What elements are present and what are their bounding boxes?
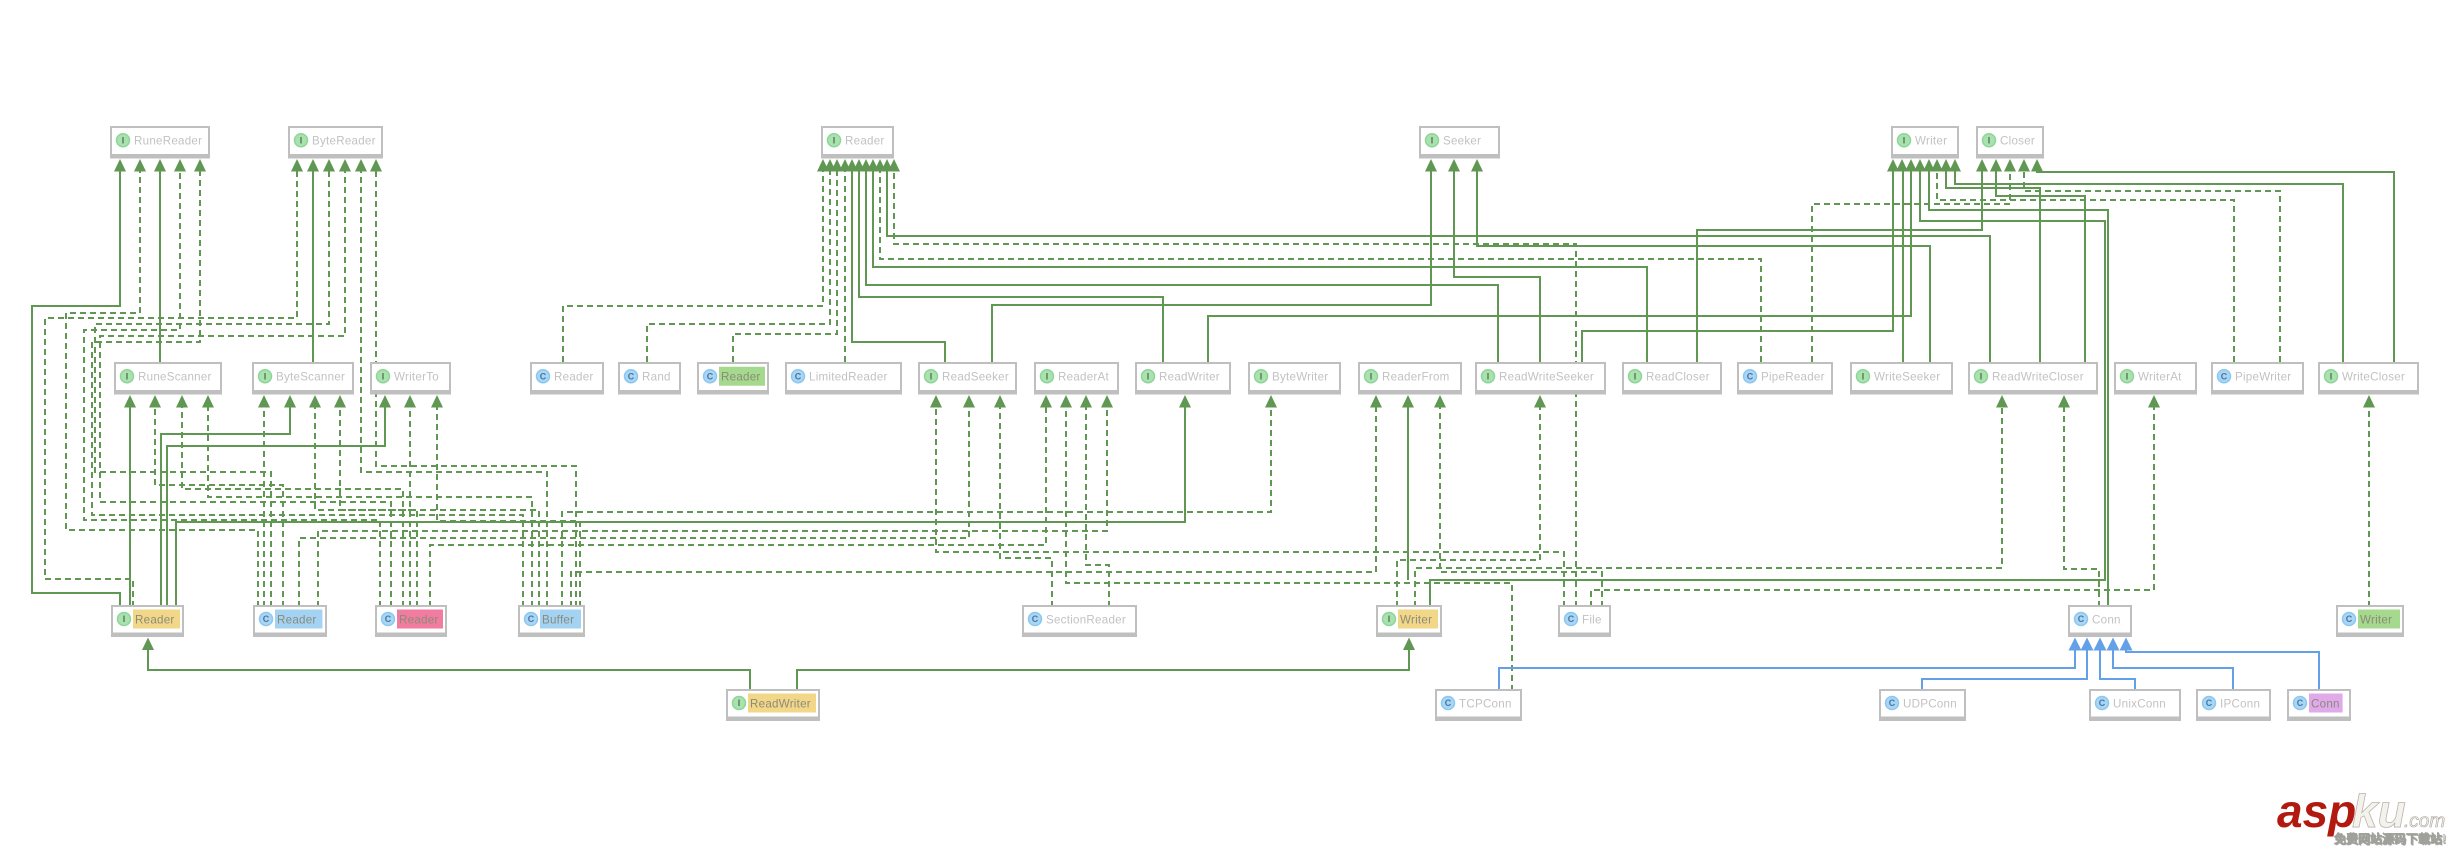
- arrowhead (blue): [2069, 638, 2082, 651]
- svg-text:C: C: [540, 371, 547, 381]
- arrowhead: [404, 395, 416, 408]
- svg-text:Rand: Rand: [642, 371, 671, 384]
- wire: [208, 408, 532, 608]
- svg-text:Reader: Reader: [277, 613, 317, 626]
- wire: [376, 172, 576, 608]
- arrowhead: [1425, 159, 1437, 172]
- arrowhead: [2031, 159, 2043, 172]
- wire: [409, 408, 411, 608]
- arrowhead: [824, 159, 836, 172]
- arrowhead: [2363, 395, 2375, 408]
- svg-text:I: I: [1988, 135, 1991, 145]
- wire: [1812, 172, 2010, 363]
- svg-text:I: I: [2330, 371, 2333, 381]
- class box ReadWriter: [1135, 362, 1231, 395]
- svg-text:Reader: Reader: [721, 371, 761, 384]
- svg-text:C: C: [1032, 614, 1039, 624]
- svg-text:C: C: [528, 614, 535, 624]
- arrowhead: [339, 159, 351, 172]
- watermark logo aspku.com: [2277, 785, 2446, 847]
- svg-text:Reader: Reader: [554, 371, 594, 384]
- svg-text:PipeReader: PipeReader: [1761, 371, 1825, 384]
- svg-text:I: I: [1431, 135, 1434, 145]
- wire: [84, 172, 380, 608]
- svg-text:UDPConn: UDPConn: [1903, 697, 1957, 710]
- class box Writer: [1891, 126, 1959, 159]
- class box ByteWriter: [1248, 362, 1341, 395]
- wire: [1066, 408, 1512, 692]
- svg-text:WriteSeeker: WriteSeeker: [1874, 371, 1940, 384]
- class box File: [1558, 605, 1611, 637]
- arrowhead: [1534, 395, 1546, 408]
- wire: [161, 408, 290, 608]
- class box IPConn: [2196, 689, 2271, 721]
- class box ReadWriteSeeker: [1475, 362, 1606, 395]
- arrowhead: [1905, 159, 1917, 172]
- wire: [263, 408, 265, 608]
- wire: [1697, 172, 1982, 363]
- arrowhead: [846, 159, 858, 172]
- arrowhead: [149, 395, 161, 408]
- svg-text:SectionReader: SectionReader: [1046, 613, 1126, 626]
- svg-text:C: C: [628, 371, 635, 381]
- arrowhead: [874, 159, 886, 172]
- class box Reader: [253, 605, 327, 637]
- arrowhead: [1949, 159, 1961, 172]
- class box Reader: [697, 362, 769, 395]
- wire: [894, 172, 1576, 608]
- wire (blue): [1922, 650, 2087, 689]
- class box ByteReader: [288, 126, 383, 159]
- wire: [563, 172, 823, 363]
- svg-text:免费网站源码下载站!: 免费网站源码下载站!: [2334, 831, 2446, 846]
- wire: [340, 408, 539, 608]
- svg-text:I: I: [738, 698, 741, 708]
- arrowhead: [1471, 159, 1483, 172]
- wire: [1902, 172, 1904, 363]
- svg-text:IPConn: IPConn: [2220, 697, 2260, 710]
- arrowhead: [963, 395, 975, 408]
- class box Seeker: [1419, 126, 1500, 159]
- wire: [155, 408, 283, 608]
- svg-text:asp: asp: [2277, 785, 2356, 837]
- arrowhead: [291, 159, 303, 172]
- wire: [1440, 408, 1602, 608]
- svg-text:ku: ku: [2352, 785, 2406, 837]
- arrowhead: [1923, 159, 1935, 172]
- svg-text:Writer: Writer: [1400, 613, 1432, 626]
- arrowhead (blue): [2081, 638, 2094, 651]
- svg-text:Reader: Reader: [845, 135, 885, 148]
- arrowhead: [258, 395, 270, 408]
- class box ReadWriter: [726, 689, 820, 721]
- arrowhead: [1448, 159, 1460, 172]
- wire: [844, 172, 846, 363]
- arrowhead: [1403, 638, 1415, 651]
- arrowhead: [1990, 159, 2002, 172]
- wire: [95, 172, 329, 608]
- wire: [299, 408, 969, 608]
- arrowhead: [994, 395, 1006, 408]
- arrowhead: [334, 395, 346, 408]
- arrowhead: [134, 159, 146, 172]
- arrowhead: [2148, 395, 2160, 408]
- class box TCPConn: [1435, 689, 1522, 721]
- svg-text:C: C: [2099, 698, 2106, 708]
- svg-text:C: C: [1747, 371, 1754, 381]
- wire: [2368, 408, 2370, 608]
- wire: [159, 172, 161, 363]
- arrowhead: [1265, 395, 1277, 408]
- svg-text:TCPConn: TCPConn: [1459, 697, 1512, 710]
- svg-text:WriteCloser: WriteCloser: [2342, 371, 2405, 384]
- wire: [2024, 172, 2280, 363]
- arrowhead: [431, 395, 443, 408]
- svg-text:Writer: Writer: [1915, 135, 1947, 148]
- arrowhead: [1976, 159, 1988, 172]
- class box Reader: [375, 605, 447, 637]
- arrowhead: [174, 159, 186, 172]
- arrowhead: [1060, 395, 1072, 408]
- arrowhead: [930, 395, 942, 408]
- wire: [1086, 408, 1109, 608]
- arrowhead: [860, 159, 872, 172]
- svg-text:I: I: [1370, 371, 1373, 381]
- svg-text:C: C: [707, 371, 714, 381]
- arrowhead: [355, 159, 367, 172]
- arrowhead: [1101, 395, 1113, 408]
- class box SectionReader: [1022, 605, 1137, 637]
- svg-text:.com: .com: [2404, 811, 2445, 832]
- svg-text:File: File: [1582, 613, 1602, 626]
- wire: [992, 172, 1431, 363]
- svg-text:RuneReader: RuneReader: [134, 135, 202, 148]
- wire: [859, 172, 1163, 363]
- svg-text:I: I: [2126, 371, 2129, 381]
- svg-text:C: C: [2206, 698, 2213, 708]
- wire (blue): [2113, 650, 2233, 689]
- arrowhead: [142, 638, 154, 651]
- arrowhead (blue): [2107, 638, 2120, 651]
- wire: [733, 172, 837, 363]
- class box PipeReader: [1737, 362, 1833, 395]
- svg-text:I: I: [1260, 371, 1263, 381]
- class box WriterTo: [370, 362, 451, 395]
- wire: [571, 408, 1376, 608]
- arrowhead (blue): [2094, 638, 2107, 651]
- svg-text:Conn: Conn: [2311, 697, 2340, 710]
- wire: [1582, 172, 1893, 363]
- svg-text:ReadCloser: ReadCloser: [1646, 371, 1710, 384]
- svg-text:ReaderFrom: ReaderFrom: [1382, 371, 1450, 384]
- class box LimitedReader: [785, 362, 902, 395]
- class box Conn: [2287, 689, 2351, 721]
- wire: [1454, 172, 1540, 363]
- svg-text:I: I: [1147, 371, 1150, 381]
- svg-text:RuneScanner: RuneScanner: [138, 371, 212, 384]
- wire: [167, 408, 385, 608]
- arrowhead: [881, 159, 893, 172]
- wire: [1397, 408, 1540, 608]
- svg-text:Closer: Closer: [2000, 135, 2035, 148]
- wire: [45, 172, 297, 608]
- class box Reader: [530, 362, 604, 395]
- svg-text:I: I: [1980, 371, 1983, 381]
- wire: [1415, 408, 2002, 608]
- arrowhead: [309, 395, 321, 408]
- arrowhead: [888, 159, 900, 172]
- class box ReaderAt: [1034, 362, 1119, 395]
- arrowhead: [1370, 395, 1382, 408]
- svg-text:LimitedReader: LimitedReader: [809, 371, 888, 384]
- wire (blue): [2100, 650, 2135, 689]
- arrowhead: [1896, 159, 1908, 172]
- arrowhead: [284, 395, 296, 408]
- wire: [32, 172, 120, 608]
- wire: [1946, 172, 2040, 363]
- svg-text:ByteReader: ByteReader: [312, 135, 376, 148]
- wire: [647, 172, 830, 363]
- svg-text:I: I: [264, 371, 267, 381]
- class box WriteSeeker: [1850, 362, 1953, 395]
- wire: [1430, 172, 2105, 608]
- arrowhead: [370, 159, 382, 172]
- wire: [936, 408, 1564, 608]
- wire: [1477, 172, 1930, 363]
- arrowhead: [194, 159, 206, 172]
- wire: [880, 172, 1761, 363]
- svg-text:ByteWriter: ByteWriter: [1272, 371, 1328, 384]
- arrowhead: [379, 395, 391, 408]
- arrowhead: [323, 159, 335, 172]
- svg-text:Buffer: Buffer: [542, 613, 574, 626]
- arrowhead: [1402, 395, 1414, 408]
- arrowhead: [114, 159, 126, 172]
- wire: [2037, 172, 2394, 363]
- svg-text:Reader: Reader: [135, 613, 175, 626]
- class box WriterAt: [2114, 362, 2197, 395]
- class box ReadSeeker: [918, 362, 1017, 395]
- svg-text:Seeker: Seeker: [1443, 135, 1481, 148]
- arrowhead: [831, 159, 843, 172]
- arrowhead: [2058, 395, 2070, 408]
- svg-text:C: C: [1445, 698, 1452, 708]
- svg-text:Reader: Reader: [399, 613, 439, 626]
- class box Conn: [2068, 605, 2132, 637]
- wire: [852, 172, 945, 363]
- arrowhead: [1179, 395, 1191, 408]
- class box Reader: [821, 126, 894, 159]
- arrowhead: [124, 395, 136, 408]
- wire: [1955, 172, 2343, 363]
- svg-text:I: I: [1487, 371, 1490, 381]
- class box Writer: [2336, 605, 2404, 637]
- wire (blue): [2126, 650, 2319, 689]
- svg-text:I: I: [382, 371, 385, 381]
- wire: [312, 172, 314, 363]
- wire: [182, 408, 403, 608]
- wire: [66, 172, 258, 608]
- wire: [1929, 172, 2108, 608]
- svg-text:I: I: [833, 135, 836, 145]
- svg-text:ReaderAt: ReaderAt: [1058, 371, 1110, 384]
- class box WriteCloser: [2318, 362, 2419, 395]
- wire: [1208, 172, 1911, 363]
- svg-text:C: C: [795, 371, 802, 381]
- svg-text:I: I: [122, 135, 125, 145]
- wire: [100, 172, 391, 608]
- wire: [1591, 408, 2154, 608]
- svg-text:I: I: [123, 614, 126, 624]
- arrowhead: [1080, 395, 1092, 408]
- wire: [318, 408, 1107, 608]
- svg-text:C: C: [2346, 614, 2353, 624]
- wire: [797, 650, 1409, 691]
- class box UnixConn: [2089, 689, 2181, 721]
- svg-text:ReadWriteCloser: ReadWriteCloser: [1992, 371, 2084, 384]
- arrowhead: [867, 159, 879, 172]
- svg-text:ReadWriteSeeker: ReadWriteSeeker: [1499, 371, 1594, 384]
- wire: [887, 172, 1990, 363]
- svg-text:ByteScanner: ByteScanner: [276, 371, 345, 384]
- class box Rand: [618, 362, 681, 395]
- class box Reader: [111, 605, 184, 637]
- class box UDPConn: [1879, 689, 1966, 721]
- class box PipeWriter: [2211, 362, 2304, 395]
- svg-text:C: C: [263, 614, 270, 624]
- arrowhead: [839, 159, 851, 172]
- wire: [361, 172, 547, 608]
- wire: [315, 408, 417, 608]
- wire (blue): [1499, 650, 2075, 689]
- arrowhead: [1887, 159, 1899, 172]
- svg-text:I: I: [1388, 614, 1391, 624]
- class box ReadCloser: [1622, 362, 1722, 395]
- wire: [176, 408, 1185, 608]
- arrowhead: [1040, 395, 1052, 408]
- svg-text:WriterAt: WriterAt: [2138, 371, 2182, 384]
- arrowhead: [853, 159, 865, 172]
- svg-text:WriterTo: WriterTo: [394, 371, 439, 384]
- svg-text:C: C: [385, 614, 392, 624]
- class box Closer: [1976, 126, 2044, 159]
- wire: [430, 408, 1046, 608]
- svg-text:PipeWriter: PipeWriter: [2235, 371, 2291, 384]
- svg-text:I: I: [1903, 135, 1906, 145]
- arrowhead: [1914, 159, 1926, 172]
- svg-text:I: I: [1862, 371, 1865, 381]
- svg-text:ReadWriter: ReadWriter: [750, 697, 811, 710]
- arrowhead: [307, 159, 319, 172]
- wire: [1407, 408, 1409, 581]
- svg-text:I: I: [1634, 371, 1637, 381]
- arrowhead: [1434, 395, 1446, 408]
- svg-text:C: C: [2078, 614, 2085, 624]
- wire: [92, 172, 523, 608]
- svg-text:UnixConn: UnixConn: [2113, 697, 2166, 710]
- svg-text:C: C: [1568, 614, 1575, 624]
- svg-text:I: I: [930, 371, 933, 381]
- wire: [1996, 172, 2085, 363]
- arrowhead: [2004, 159, 2016, 172]
- svg-text:I: I: [1046, 371, 1049, 381]
- class box Buffer: [518, 605, 585, 637]
- wire: [873, 172, 1647, 363]
- wire: [148, 650, 750, 691]
- class box RuneReader: [110, 126, 210, 159]
- svg-text:ReadWriter: ReadWriter: [1159, 371, 1220, 384]
- svg-text:ReadSeeker: ReadSeeker: [942, 371, 1009, 384]
- class box Writer: [1376, 605, 1442, 637]
- wire: [1937, 172, 2234, 363]
- wire: [1000, 408, 1052, 608]
- wire: [2064, 408, 2099, 608]
- arrowhead: [817, 159, 829, 172]
- arrowhead: [202, 395, 214, 408]
- class box ReaderFrom: [1358, 362, 1462, 395]
- class box ByteScanner: [252, 362, 354, 395]
- svg-text:Conn: Conn: [2092, 613, 2121, 626]
- svg-text:I: I: [300, 135, 303, 145]
- arrowhead: [2018, 159, 2030, 172]
- svg-text:C: C: [1889, 698, 1896, 708]
- wire: [129, 408, 131, 608]
- arrowhead: [1996, 395, 2008, 408]
- svg-text:C: C: [2221, 371, 2228, 381]
- svg-text:C: C: [2297, 698, 2304, 708]
- svg-text:I: I: [126, 371, 129, 381]
- arrowhead: [176, 395, 188, 408]
- arrowhead: [1931, 159, 1943, 172]
- arrowhead (blue): [2120, 638, 2133, 651]
- arrowhead: [154, 159, 166, 172]
- wire: [437, 408, 580, 608]
- arrowhead: [1940, 159, 1952, 172]
- wire: [866, 172, 1498, 363]
- wire: [562, 408, 1271, 608]
- svg-text:Writer: Writer: [2360, 613, 2392, 626]
- class box RuneScanner: [114, 362, 222, 395]
- class box ReadWriteCloser: [1968, 362, 2098, 395]
